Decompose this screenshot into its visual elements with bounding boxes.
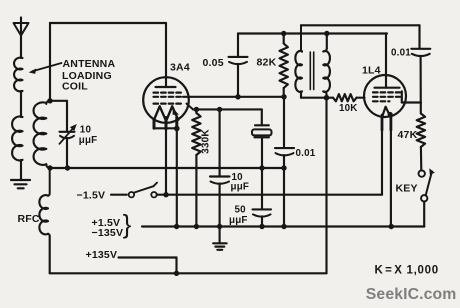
- svg-text:−135V: −135V: [92, 227, 124, 239]
- svg-text:0.05: 0.05: [203, 57, 224, 69]
- svg-text:μμF: μμF: [79, 135, 98, 146]
- svg-text:+135V: +135V: [86, 249, 118, 261]
- svg-text:10: 10: [80, 125, 92, 136]
- svg-text:1L4: 1L4: [362, 65, 381, 77]
- svg-text:0.01: 0.01: [296, 148, 316, 159]
- svg-text:82K: 82K: [257, 57, 277, 69]
- svg-text:0.01: 0.01: [391, 48, 411, 59]
- svg-text:330K: 330K: [200, 129, 211, 154]
- svg-text:50: 50: [235, 204, 247, 215]
- svg-text:KEY: KEY: [396, 182, 418, 194]
- svg-text:47K: 47K: [398, 129, 418, 141]
- svg-text:COIL: COIL: [62, 81, 88, 93]
- svg-text:3A4: 3A4: [170, 62, 190, 74]
- svg-text:RFC: RFC: [18, 213, 40, 225]
- svg-text:μμF: μμF: [231, 182, 250, 193]
- svg-text:ANTENNA: ANTENNA: [63, 58, 116, 70]
- svg-text:SeekIC.com: SeekIC.com: [366, 286, 457, 303]
- svg-text:−1.5V: −1.5V: [77, 189, 106, 201]
- svg-text:K = X 1,000: K = X 1,000: [375, 265, 439, 277]
- svg-text:10K: 10K: [339, 103, 358, 114]
- svg-text:}: }: [123, 209, 132, 239]
- svg-text:μμF: μμF: [229, 215, 248, 226]
